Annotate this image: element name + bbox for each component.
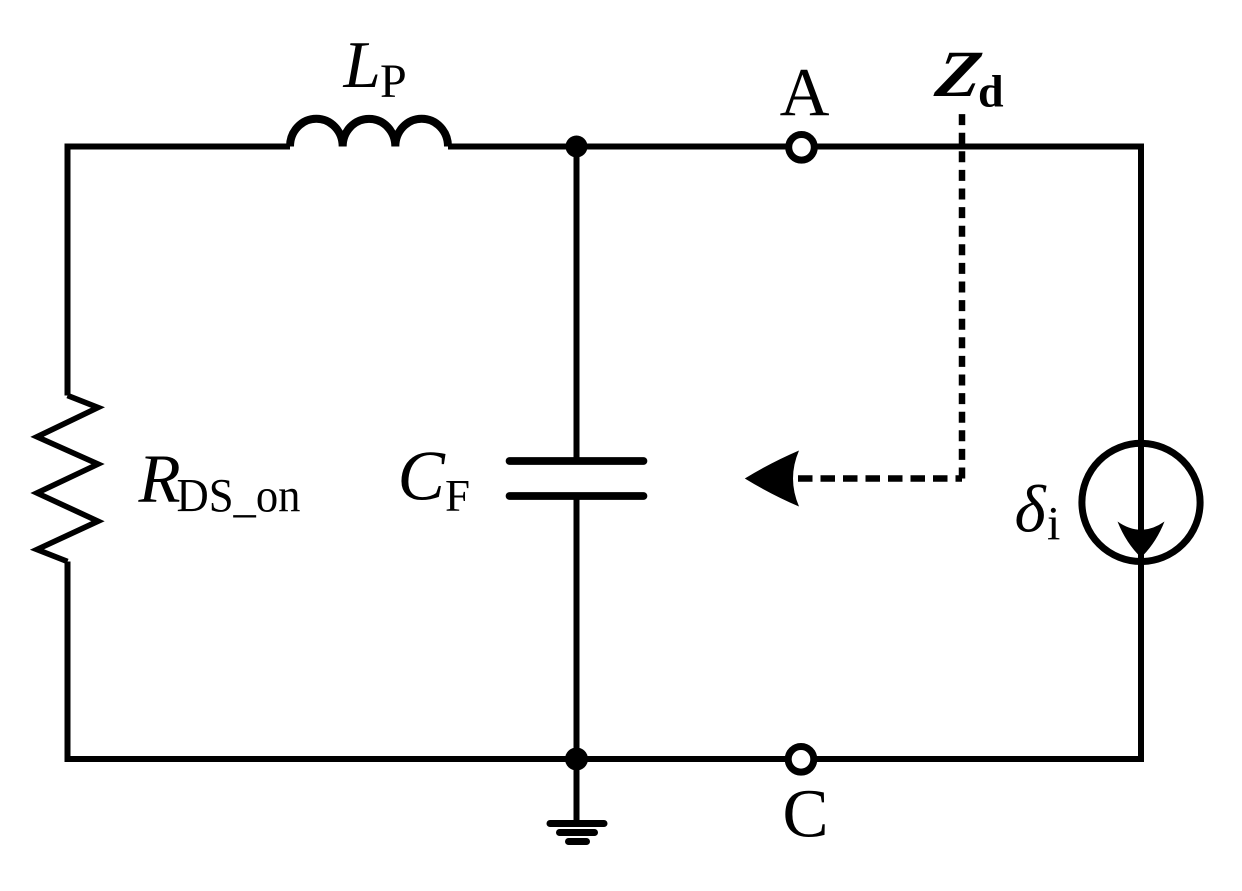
svg-text:P: P	[380, 55, 407, 108]
svg-text:δ: δ	[1015, 473, 1048, 547]
svg-text:R: R	[138, 441, 181, 517]
svg-text:i: i	[1047, 498, 1060, 551]
svg-text:DS_on: DS_on	[177, 470, 301, 523]
svg-text:L: L	[343, 28, 381, 102]
svg-text:C: C	[398, 438, 447, 516]
svg-text:d: d	[978, 66, 1004, 117]
svg-text:C: C	[782, 776, 828, 852]
svg-text:A: A	[780, 54, 830, 130]
svg-text:F: F	[445, 471, 470, 521]
